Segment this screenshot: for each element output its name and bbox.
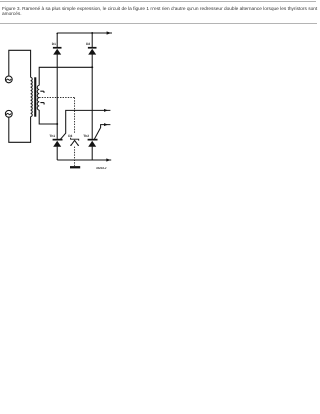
dashed center-tap net [39,97,74,99]
wire top output rail [57,32,112,34]
ground [70,166,80,168]
caption text [2,7,320,17]
AC source G2 [5,110,12,117]
wire gate Th1 [61,110,111,139]
wire secondary bottom to column A [39,110,57,124]
thyristor Th2 [88,139,98,141]
wire secondary top to column B [39,67,92,85]
zener diode D3 symbol (outline) [71,138,79,141]
rule below caption [0,23,317,24]
top horizontal rule [0,1,316,2]
arrow gate Th1 [104,109,108,112]
AC source G1 [5,76,12,83]
node top rail left corner [56,33,58,35]
svg-text:D2: D2 [86,42,90,46]
node top rail / column B [91,32,93,34]
diode D1 [53,47,62,49]
wire mains left top [9,50,31,77]
node secondary bottom / column A [56,123,58,125]
svg-text:Th2: Th2 [83,134,89,138]
arrow bottom rail [106,158,110,161]
wire mains left bottom [9,117,31,143]
winding hook mark bottom [40,103,44,105]
wire gate Th2 [94,125,110,140]
transformer primary winding [31,77,33,116]
winding hook mark top [40,91,44,93]
transformer core [34,77,36,116]
arrow gate Th2 [104,123,108,126]
wire column B [91,33,93,47]
node secondary top / column B [91,66,93,68]
svg-text:D1: D1 [52,42,56,46]
arrow top rail [107,31,112,34]
wire column A (anode rail) [56,33,58,47]
svg-text:85218-2: 85218-2 [96,167,107,170]
svg-text:D3: D3 [68,134,72,138]
thyristor Th1 [53,139,63,141]
wire bottom output rail [57,159,111,161]
diode D2 [88,47,97,49]
svg-text:Th1: Th1 [49,134,55,138]
transformer secondary winding [37,85,39,110]
